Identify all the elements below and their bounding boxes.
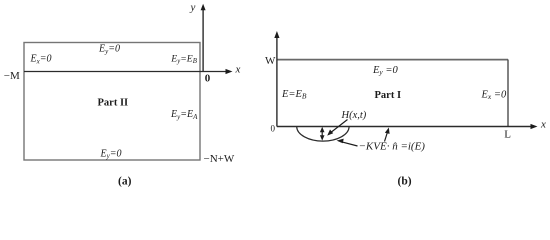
svg-text:−KVE· n̂ =i(E): −KVE· n̂ =i(E)	[359, 141, 426, 153]
double-headed depth arrow inside pit	[320, 127, 325, 141]
svg-text:E=EB: E=EB	[281, 89, 307, 101]
svg-text:Ey=0: Ey=0	[98, 44, 120, 56]
svg-text:H(x,t): H(x,t)	[341, 110, 367, 121]
y-axis of (a)	[201, 4, 206, 72]
x-axis of (b) / bottom edge	[277, 124, 538, 129]
rectangle Part I right edge	[507, 60, 509, 127]
svg-text:−N+W: −N+W	[204, 153, 235, 165]
svg-text:0: 0	[271, 124, 276, 134]
x-axis of (a)	[24, 69, 233, 74]
svg-text:Ex=0: Ex=0	[30, 54, 52, 66]
leader arrow from flux label to bottom boundary	[385, 128, 390, 142]
svg-text:Ey=0: Ey=0	[100, 148, 122, 160]
svg-text:0: 0	[205, 73, 211, 85]
leader arrow from H(x,t) to depth arrow	[327, 120, 347, 136]
semicircular pit H(x,t) on bottom boundary	[297, 127, 349, 142]
svg-text:y: y	[190, 2, 196, 14]
svg-text:Ey=EA: Ey=EA	[170, 109, 198, 121]
svg-text:x: x	[540, 119, 546, 131]
svg-text:x: x	[235, 64, 241, 76]
svg-text:Ey=EB: Ey=EB	[170, 53, 197, 65]
leader arrow from flux label to pit arc	[337, 139, 358, 146]
svg-text:Part I: Part I	[375, 90, 402, 101]
svg-text:L: L	[504, 129, 511, 141]
svg-text:Part II: Part II	[98, 98, 129, 109]
svg-text:(a): (a)	[118, 176, 132, 188]
rectangle Part II domain	[24, 43, 200, 161]
rectangle Part I domain: top edge	[277, 59, 508, 61]
svg-text:Ex =0: Ex =0	[481, 89, 507, 101]
svg-text:Ey =0: Ey =0	[372, 65, 398, 77]
svg-text:W: W	[265, 55, 276, 67]
svg-text:−M: −M	[4, 70, 20, 82]
svg-text:(b): (b)	[398, 176, 412, 188]
y-axis of (b) / left edge	[274, 31, 279, 127]
